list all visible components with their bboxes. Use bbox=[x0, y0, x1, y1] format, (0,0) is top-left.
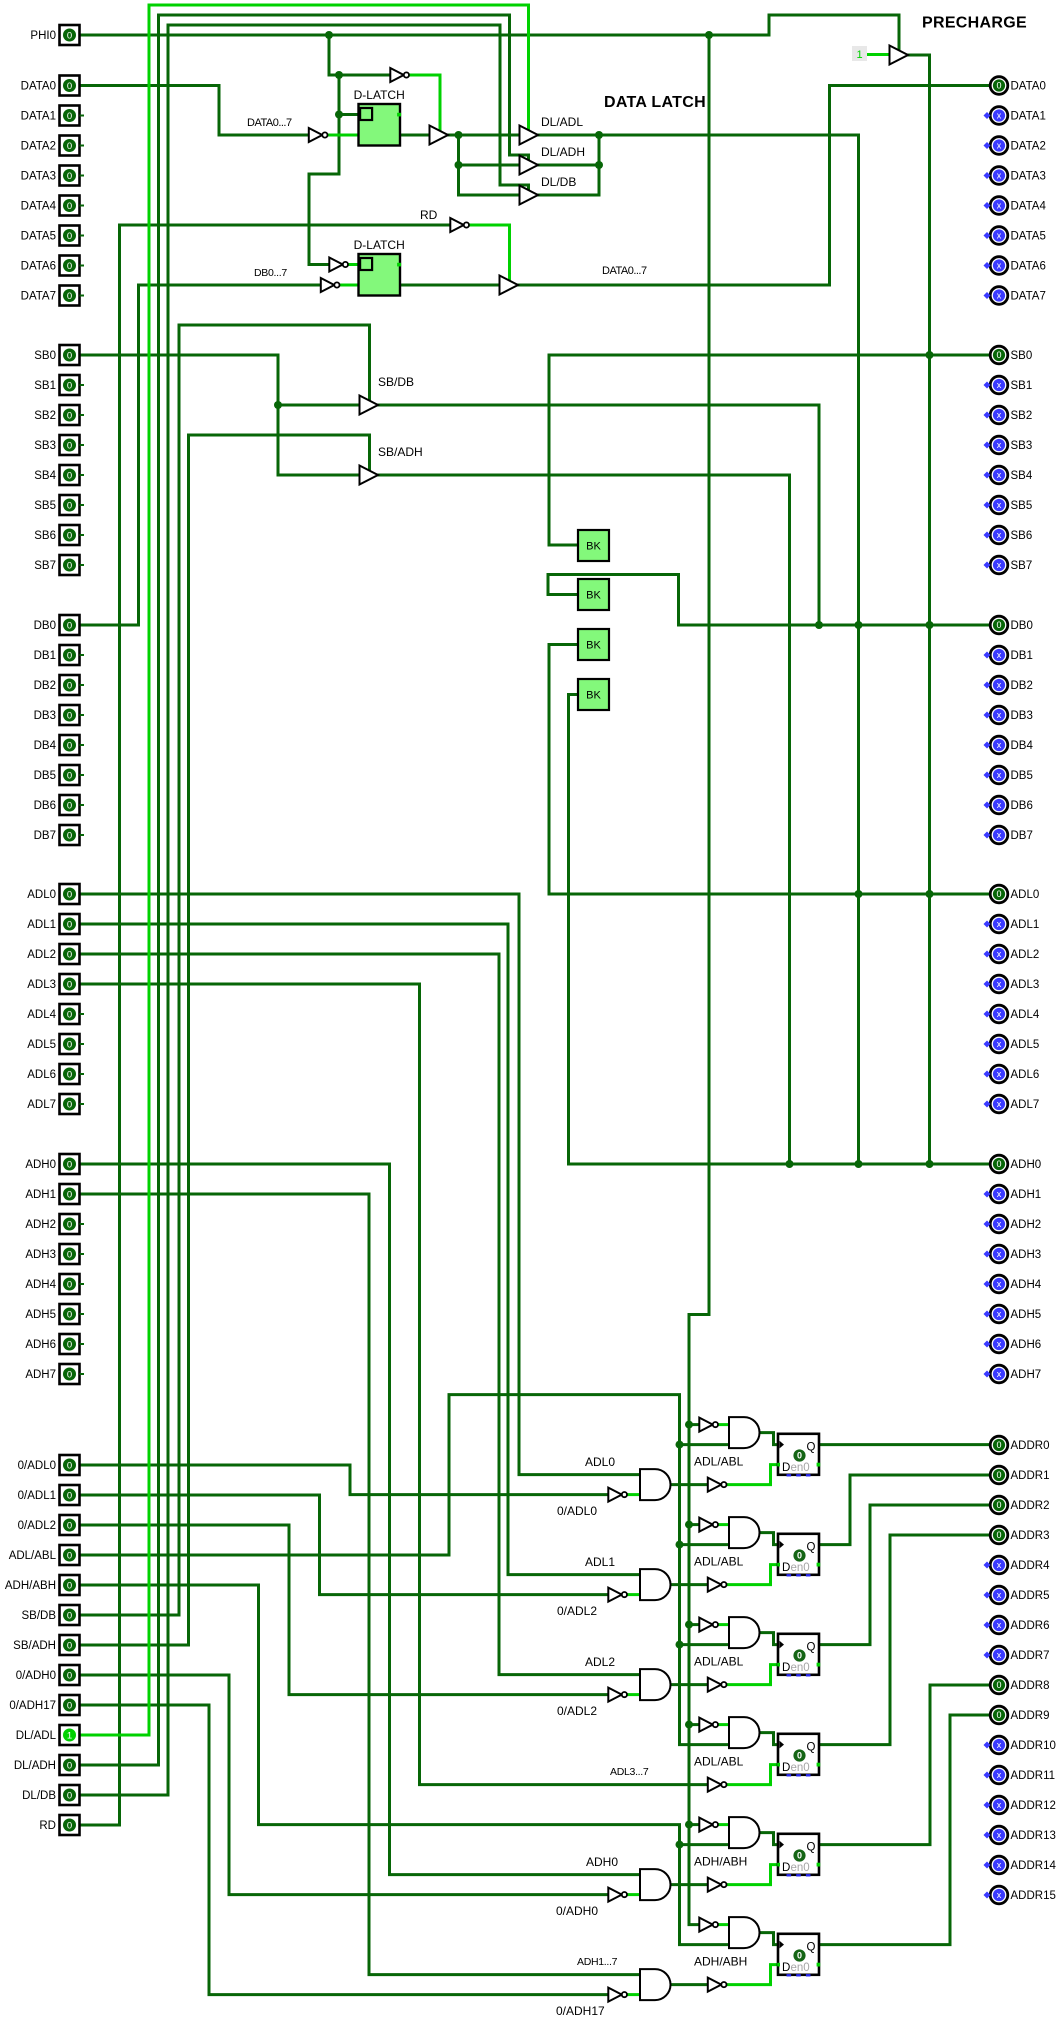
wire data inverter 0 out bright bbox=[627, 1493, 640, 1496]
wire DL bus bbox=[448, 134, 859, 137]
tri-state buffer DL/ADH bbox=[520, 156, 539, 175]
input pin 0/ADH17 bbox=[9, 1695, 79, 1715]
svg-text:0: 0 bbox=[67, 620, 72, 631]
output pin ADDR1 bbox=[990, 1466, 1049, 1484]
input pin ADL0 bbox=[27, 884, 79, 904]
and gate ADH1...7 bbox=[640, 1969, 671, 2000]
wire clock gate 4 output bbox=[760, 1833, 779, 1845]
svg-text:DATA0...7: DATA0...7 bbox=[247, 117, 292, 129]
flip-flop Den0 0 bbox=[777, 1434, 820, 1477]
svg-text:DB4: DB4 bbox=[1011, 740, 1034, 752]
output pin ADDR15 bbox=[984, 1886, 1056, 1904]
wire 0/ADH0 control bbox=[80, 1675, 609, 1895]
junction ADL0 a bbox=[855, 890, 863, 898]
input pin ADH4 bbox=[25, 1274, 84, 1294]
svg-text:DB2: DB2 bbox=[1011, 680, 1033, 692]
wire PHI0 stub 2 bbox=[689, 1623, 700, 1626]
constant 1 bbox=[852, 46, 867, 61]
svg-text:ADL/ABL: ADL/ABL bbox=[9, 1550, 57, 1562]
output pin ADH1 bbox=[984, 1185, 1042, 1203]
output pin ADDR2 bbox=[990, 1496, 1049, 1514]
svg-text:DATA3: DATA3 bbox=[1011, 171, 1046, 183]
wire D feed 2 bright bbox=[727, 1665, 779, 1685]
svg-text:x: x bbox=[997, 1890, 1002, 1900]
svg-text:ADL1: ADL1 bbox=[1011, 919, 1040, 931]
svg-text:0: 0 bbox=[67, 1460, 72, 1471]
svg-text:DB1: DB1 bbox=[1011, 650, 1033, 662]
wire BK1 link bbox=[549, 355, 578, 545]
output pin ADDR10 bbox=[984, 1736, 1056, 1754]
and gate clock ADL/ABL 0 bbox=[729, 1417, 760, 1448]
svg-text:0: 0 bbox=[67, 470, 72, 481]
svg-text:ADDR11: ADDR11 bbox=[1011, 1770, 1056, 1782]
wire DATA0 input bbox=[80, 86, 310, 136]
svg-text:DATA6: DATA6 bbox=[1011, 261, 1046, 273]
svg-text:x: x bbox=[997, 111, 1002, 121]
svg-text:0: 0 bbox=[67, 680, 72, 691]
svg-text:0: 0 bbox=[797, 1651, 802, 1661]
svg-text:DL/ADH: DL/ADH bbox=[14, 1760, 56, 1772]
svg-text:ADH5: ADH5 bbox=[1011, 1309, 1042, 1321]
svg-text:0: 0 bbox=[996, 81, 1001, 91]
svg-text:ADL/ABL: ADL/ABL bbox=[694, 1455, 744, 1469]
svg-text:0: 0 bbox=[67, 919, 72, 930]
output pin SB0 bbox=[990, 346, 1032, 364]
tri-state buffer DL/DB bbox=[520, 186, 539, 205]
svg-text:0: 0 bbox=[67, 1610, 72, 1621]
svg-text:x: x bbox=[997, 440, 1002, 450]
wire PHI0 drop to inverter row bbox=[329, 35, 389, 75]
wire data inverter 1 out bright bbox=[627, 1593, 640, 1596]
output pin DB3 bbox=[984, 706, 1033, 724]
svg-text:DB6: DB6 bbox=[1011, 800, 1033, 812]
svg-text:x: x bbox=[997, 261, 1002, 271]
svg-text:0: 0 bbox=[996, 889, 1001, 899]
wire ADDR8 out bbox=[820, 1685, 991, 1845]
svg-text:0: 0 bbox=[67, 261, 72, 272]
svg-text:0: 0 bbox=[67, 1279, 72, 1290]
output pin DB5 bbox=[984, 766, 1033, 784]
output pin ADL6 bbox=[984, 1065, 1040, 1083]
svg-text:ADDR3: ADDR3 bbox=[1011, 1530, 1050, 1542]
output pin ADH7 bbox=[984, 1365, 1042, 1383]
output pin ADDR9 bbox=[990, 1706, 1049, 1724]
svg-text:ADL1: ADL1 bbox=[585, 1555, 615, 1569]
svg-text:0: 0 bbox=[67, 1219, 72, 1230]
svg-text:DATA4: DATA4 bbox=[21, 201, 57, 213]
input pin DATA5 bbox=[21, 226, 84, 246]
svg-text:Q: Q bbox=[807, 1941, 816, 1953]
tri-state buffer SB/ADH bbox=[360, 466, 379, 485]
wire ADDR2 out bbox=[820, 1505, 991, 1645]
svg-text:D-LATCH: D-LATCH bbox=[354, 88, 405, 102]
inverter RD bbox=[450, 218, 469, 232]
junction PHI0 gate 1 bbox=[685, 1521, 693, 1529]
junction DL ADH in bbox=[455, 161, 463, 169]
svg-text:x: x bbox=[997, 291, 1002, 301]
svg-text:DATA5: DATA5 bbox=[21, 231, 56, 243]
svg-text:x: x bbox=[997, 470, 1002, 480]
wire data gate 5 output bbox=[671, 1983, 708, 1986]
svg-text:ADL6: ADL6 bbox=[27, 1069, 56, 1081]
junction DB0 b bbox=[855, 621, 863, 629]
output pin SB4 bbox=[984, 466, 1033, 484]
input pin ADL7 bbox=[27, 1094, 84, 1114]
junction DB0 a bbox=[815, 621, 823, 629]
svg-text:SB2: SB2 bbox=[1011, 410, 1033, 422]
svg-text:SB1: SB1 bbox=[1011, 380, 1033, 392]
wire ADH0 row bbox=[569, 1163, 991, 1166]
input pin ADH6 bbox=[25, 1334, 84, 1354]
svg-text:1: 1 bbox=[67, 1730, 72, 1741]
svg-text:0: 0 bbox=[67, 889, 72, 900]
svg-text:DB0: DB0 bbox=[1011, 620, 1033, 632]
d-latch U2 bbox=[354, 238, 405, 296]
svg-text:0: 0 bbox=[67, 710, 72, 721]
svg-text:DATA7: DATA7 bbox=[1011, 291, 1046, 303]
wire DL/DB control bbox=[80, 25, 529, 1795]
svg-text:ADL5: ADL5 bbox=[1011, 1039, 1040, 1051]
svg-text:ADL3: ADL3 bbox=[1011, 979, 1040, 991]
wire PHI0 stub to D-LATCH1 clock bbox=[339, 113, 359, 116]
svg-text:DL/DB: DL/DB bbox=[22, 1790, 56, 1802]
inverter PHI0 gate 2 bbox=[699, 1618, 718, 1632]
svg-text:ADH7: ADH7 bbox=[25, 1369, 56, 1381]
input pin DATA7 bbox=[21, 286, 84, 306]
output pin SB1 bbox=[984, 376, 1033, 394]
svg-text:SB/DB: SB/DB bbox=[378, 375, 414, 389]
inverter 0/ADL2 bbox=[608, 1688, 627, 1702]
wire DATA inverter out bright bbox=[328, 134, 359, 137]
output pin DB4 bbox=[984, 736, 1034, 754]
inverter PHI0 gate 3 bbox=[699, 1718, 718, 1732]
svg-text:0: 0 bbox=[67, 201, 72, 212]
svg-text:0: 0 bbox=[67, 1670, 72, 1681]
svg-text:0: 0 bbox=[67, 1700, 72, 1711]
inverter latch2 clock bbox=[329, 258, 348, 272]
svg-text:DATA0: DATA0 bbox=[21, 81, 56, 93]
svg-text:0: 0 bbox=[996, 1500, 1001, 1510]
svg-text:0: 0 bbox=[67, 1760, 72, 1771]
svg-text:BK: BK bbox=[586, 690, 601, 702]
svg-text:x: x bbox=[997, 1009, 1002, 1019]
svg-text:0: 0 bbox=[67, 1490, 72, 1501]
svg-text:SB1: SB1 bbox=[34, 380, 56, 392]
input pin ADL4 bbox=[27, 1004, 84, 1024]
svg-text:0: 0 bbox=[67, 350, 72, 361]
and gate ADL1 bbox=[640, 1569, 671, 1600]
svg-text:BK: BK bbox=[586, 541, 601, 553]
output pin ADDR3 bbox=[990, 1526, 1049, 1544]
output pin DB7 bbox=[984, 826, 1033, 844]
svg-text:0: 0 bbox=[67, 380, 72, 391]
bus keeper BK3 bbox=[578, 629, 609, 660]
input pin DATA2 bbox=[21, 136, 84, 156]
inverter D feed 5 bbox=[708, 1978, 727, 1992]
wire ADH/ABH control bbox=[80, 1585, 730, 1945]
wire BK4 link bbox=[569, 695, 579, 1165]
svg-text:DL/DB: DL/DB bbox=[541, 175, 576, 189]
svg-text:ADDR13: ADDR13 bbox=[1011, 1830, 1056, 1842]
input pin 0/ADL2 bbox=[18, 1515, 80, 1535]
svg-text:SB6: SB6 bbox=[1011, 530, 1033, 542]
flip-flop Den0 3 bbox=[777, 1734, 820, 1777]
output pin ADH4 bbox=[984, 1275, 1042, 1293]
wire clock gate 5 output bbox=[760, 1933, 779, 1945]
input pin DB0 bbox=[34, 615, 80, 635]
svg-text:0/ADL0: 0/ADL0 bbox=[557, 1504, 597, 1518]
svg-text:DATA LATCH: DATA LATCH bbox=[604, 94, 706, 111]
wire SB/ADH output bbox=[378, 475, 790, 1164]
svg-text:x: x bbox=[997, 770, 1002, 780]
input pin ADL1 bbox=[27, 914, 79, 934]
svg-text:ADH/ABH: ADH/ABH bbox=[694, 1955, 747, 1969]
flip-flop Den0 2 bbox=[777, 1634, 820, 1677]
svg-text:DATA2: DATA2 bbox=[21, 141, 56, 153]
svg-text:x: x bbox=[997, 830, 1002, 840]
svg-text:ADL0: ADL0 bbox=[585, 1455, 615, 1469]
svg-text:en0: en0 bbox=[791, 1762, 810, 1774]
wire D feed 5 bright bbox=[727, 1965, 779, 1985]
svg-text:DB0: DB0 bbox=[34, 620, 56, 632]
wire ADL0 feed bbox=[80, 894, 641, 1475]
svg-text:Q: Q bbox=[807, 1841, 816, 1853]
svg-text:ADDR2: ADDR2 bbox=[1011, 1500, 1050, 1512]
svg-text:0: 0 bbox=[996, 1440, 1001, 1450]
wire DL tristate feed vertical bbox=[459, 135, 519, 195]
tri-state buffer PRECHARGE bbox=[890, 46, 909, 65]
output pin ADH3 bbox=[984, 1245, 1042, 1263]
junction DL bus c bbox=[595, 161, 603, 169]
svg-text:x: x bbox=[997, 201, 1002, 211]
svg-text:0: 0 bbox=[996, 1710, 1001, 1720]
junction PHI0 gate 0 bbox=[685, 1421, 693, 1429]
wire PHI0 inverted bright bbox=[409, 75, 440, 130]
junction latch1 clock bbox=[335, 111, 343, 119]
output pin SB6 bbox=[984, 526, 1033, 544]
svg-text:x: x bbox=[997, 740, 1002, 750]
wire DL/ADH tristate output stub bbox=[538, 164, 599, 167]
inverter PHI0 gate 5 bbox=[699, 1918, 718, 1932]
input pin ADH7 bbox=[25, 1364, 84, 1384]
svg-text:ADL3: ADL3 bbox=[27, 979, 56, 991]
wire clock inverter 3 out bright bbox=[718, 1723, 730, 1726]
svg-text:0/ADH17: 0/ADH17 bbox=[556, 2004, 605, 2018]
wire PHI0 long vertical bbox=[689, 35, 709, 1925]
svg-text:0: 0 bbox=[67, 1369, 72, 1380]
input pin DL/ADH bbox=[14, 1755, 80, 1775]
svg-text:ADL4: ADL4 bbox=[27, 1009, 56, 1021]
input pin DATA4 bbox=[21, 196, 84, 216]
and gate ADL2 bbox=[640, 1669, 671, 1700]
svg-text:ADDR9: ADDR9 bbox=[1011, 1710, 1050, 1722]
svg-text:ADH3: ADH3 bbox=[1011, 1249, 1042, 1261]
wire DL bus drop bbox=[857, 135, 860, 1164]
svg-text:DB6: DB6 bbox=[34, 800, 56, 812]
svg-text:x: x bbox=[997, 1800, 1002, 1810]
svg-text:ADL3...7: ADL3...7 bbox=[610, 1766, 649, 1778]
svg-text:ADDR10: ADDR10 bbox=[1011, 1740, 1056, 1752]
svg-text:SB/ADH: SB/ADH bbox=[378, 445, 423, 459]
wire clock gate 0 output bbox=[760, 1433, 779, 1445]
input pin DB4 bbox=[34, 735, 84, 755]
input pin PHI0 bbox=[30, 25, 79, 45]
wire DL tristate outputs join bbox=[598, 135, 601, 195]
svg-text:1: 1 bbox=[856, 49, 862, 61]
wire DL/DB tristate output stub bbox=[538, 194, 599, 197]
output pin ADL3 bbox=[984, 975, 1040, 993]
wire data gate 1 output bbox=[671, 1583, 708, 1586]
wire data gate 2 output bbox=[671, 1683, 708, 1686]
junction DL bus a bbox=[455, 131, 463, 139]
input pin SB5 bbox=[34, 495, 84, 515]
wire DL/ADL control bright bbox=[80, 5, 529, 1735]
svg-text:ADH5: ADH5 bbox=[25, 1309, 56, 1321]
input pin DATA1 bbox=[21, 106, 84, 126]
svg-text:x: x bbox=[997, 1249, 1002, 1259]
svg-text:DB0...7: DB0...7 bbox=[254, 267, 287, 279]
svg-text:0/ADL0: 0/ADL0 bbox=[18, 1460, 56, 1472]
svg-text:ADL2: ADL2 bbox=[27, 949, 56, 961]
svg-text:x: x bbox=[997, 680, 1002, 690]
svg-text:0: 0 bbox=[67, 171, 72, 182]
svg-text:ADH4: ADH4 bbox=[1011, 1279, 1042, 1291]
output pin ADDR12 bbox=[984, 1796, 1056, 1814]
svg-text:x: x bbox=[997, 1620, 1002, 1630]
svg-text:x: x bbox=[997, 1830, 1002, 1840]
svg-text:0: 0 bbox=[67, 1159, 72, 1170]
svg-text:x: x bbox=[997, 560, 1002, 570]
svg-text:en0: en0 bbox=[791, 1862, 810, 1874]
svg-text:x: x bbox=[997, 710, 1002, 720]
svg-text:x: x bbox=[997, 171, 1002, 181]
svg-text:DB5: DB5 bbox=[1011, 770, 1033, 782]
wire clock gate 3 output bbox=[760, 1733, 779, 1745]
input pin ADL2 bbox=[27, 944, 79, 964]
svg-text:x: x bbox=[997, 530, 1002, 540]
svg-text:DATA0: DATA0 bbox=[1011, 81, 1046, 93]
wire SB0 row bbox=[549, 354, 990, 357]
input pin RD bbox=[39, 1815, 79, 1835]
output pin DB6 bbox=[984, 796, 1033, 814]
wire DB0 input bbox=[80, 285, 321, 625]
svg-text:x: x bbox=[997, 141, 1002, 151]
svg-text:0/ADL2: 0/ADL2 bbox=[18, 1520, 56, 1532]
svg-text:SB0: SB0 bbox=[34, 350, 56, 362]
svg-text:ADH1...7: ADH1...7 bbox=[577, 1956, 618, 1968]
wire D feed 4 bright bbox=[727, 1865, 779, 1885]
output pin DATA2 bbox=[984, 137, 1046, 155]
svg-text:0: 0 bbox=[797, 1751, 802, 1761]
svg-text:0/ADH0: 0/ADH0 bbox=[556, 1904, 598, 1918]
svg-text:D: D bbox=[782, 1862, 790, 1874]
svg-text:ADL2: ADL2 bbox=[585, 1655, 615, 1669]
svg-text:DATA4: DATA4 bbox=[1011, 201, 1047, 213]
junction ADH0 b bbox=[855, 1160, 863, 1168]
tri-state buffer SB/DB bbox=[360, 396, 379, 415]
svg-text:SB0: SB0 bbox=[1011, 350, 1033, 362]
svg-text:0: 0 bbox=[67, 30, 72, 41]
svg-text:x: x bbox=[997, 1039, 1002, 1049]
output pin ADDR6 bbox=[984, 1616, 1050, 1634]
svg-text:ADDR15: ADDR15 bbox=[1011, 1890, 1056, 1902]
input pin DATA0 bbox=[21, 76, 80, 96]
wire data gate 4 output bbox=[671, 1883, 708, 1886]
svg-text:0: 0 bbox=[67, 1520, 72, 1531]
svg-text:DB3: DB3 bbox=[34, 710, 56, 722]
wire ADDR1 out bbox=[820, 1475, 991, 1545]
output pin ADDR8 bbox=[990, 1676, 1049, 1694]
svg-text:0: 0 bbox=[67, 530, 72, 541]
junction ADL/ABL 1 bbox=[676, 1541, 684, 1549]
svg-text:0: 0 bbox=[67, 1580, 72, 1591]
output pin DATA5 bbox=[984, 227, 1046, 245]
svg-text:0: 0 bbox=[996, 1680, 1001, 1690]
svg-text:Q: Q bbox=[807, 1641, 816, 1653]
wire data gate 0 output bbox=[671, 1483, 708, 1486]
wire ADL/ABL stub 1 bbox=[680, 1543, 730, 1546]
flip-flop Den0 1 bbox=[777, 1534, 820, 1577]
input pin DL/ADL bbox=[16, 1725, 80, 1745]
wire ADL1 feed bbox=[80, 924, 641, 1575]
svg-text:ADH2: ADH2 bbox=[1011, 1219, 1042, 1231]
svg-text:SB7: SB7 bbox=[34, 560, 56, 572]
svg-text:ADDR12: ADDR12 bbox=[1011, 1800, 1056, 1812]
svg-text:0: 0 bbox=[67, 500, 72, 511]
inverter 0/ADH0 bbox=[608, 1888, 627, 1902]
input pin DL/DB bbox=[22, 1785, 79, 1805]
svg-text:ADL2: ADL2 bbox=[1011, 949, 1040, 961]
svg-text:0: 0 bbox=[67, 1339, 72, 1350]
junction SB input bbox=[274, 401, 282, 409]
input pin ADH1 bbox=[25, 1184, 79, 1204]
svg-text:ADDR8: ADDR8 bbox=[1011, 1680, 1050, 1692]
svg-text:en0: en0 bbox=[791, 1462, 810, 1474]
wire PRECHARGE vertical bbox=[908, 55, 930, 1164]
wire ADL/ABL stub 0 bbox=[680, 1443, 730, 1446]
input pin ADL3 bbox=[27, 974, 79, 994]
input pin DATA6 bbox=[21, 256, 84, 276]
svg-text:SB5: SB5 bbox=[1011, 500, 1033, 512]
input pin SB0 bbox=[34, 345, 79, 365]
junction ADH0 c bbox=[926, 1160, 934, 1168]
svg-text:x: x bbox=[997, 1279, 1002, 1289]
svg-text:PHI0: PHI0 bbox=[30, 30, 56, 42]
input pin SB2 bbox=[34, 405, 84, 425]
inverter D feed 3 bbox=[708, 1778, 727, 1792]
svg-text:ADH7: ADH7 bbox=[1011, 1369, 1042, 1381]
junction ADH/ABH bbox=[676, 1841, 684, 1849]
svg-text:0: 0 bbox=[67, 440, 72, 451]
wire PHI0 main bbox=[80, 15, 900, 50]
wire clock inverter 5 out bright bbox=[718, 1923, 730, 1926]
svg-text:x: x bbox=[997, 1339, 1002, 1349]
input pin SB1 bbox=[34, 375, 84, 395]
input pin ADL6 bbox=[27, 1064, 84, 1084]
inverter DATA0..7 bbox=[309, 128, 328, 142]
input pin ADH5 bbox=[25, 1304, 84, 1324]
svg-text:0: 0 bbox=[797, 1551, 802, 1561]
wire DL/ADH control bbox=[80, 15, 529, 1765]
svg-text:ADL4: ADL4 bbox=[1011, 1009, 1040, 1021]
svg-text:0: 0 bbox=[67, 141, 72, 152]
svg-text:x: x bbox=[997, 919, 1002, 929]
svg-text:0/ADH17: 0/ADH17 bbox=[9, 1700, 56, 1712]
svg-text:0: 0 bbox=[67, 1550, 72, 1561]
svg-text:ADL7: ADL7 bbox=[27, 1099, 56, 1111]
wire data inverter 2 out bright bbox=[627, 1693, 640, 1696]
svg-text:ADDR14: ADDR14 bbox=[1011, 1860, 1057, 1872]
